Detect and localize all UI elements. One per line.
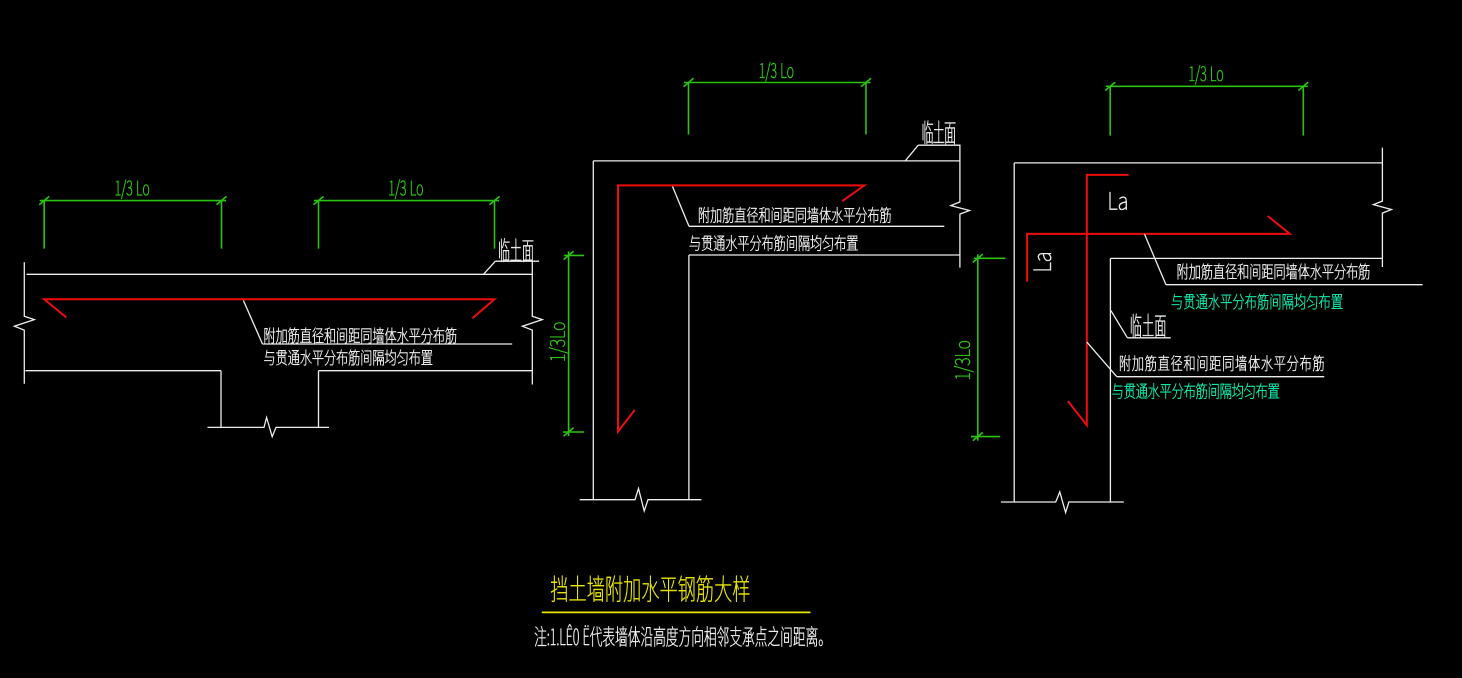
vertical dimension 1/3Lo (middle detail) (549, 251, 584, 436)
bottom cut line with break symbol (right detail) (1001, 492, 1124, 513)
wall top line (middle detail) (593, 160, 960, 162)
dimension 1/3Lo left-detail span B (314, 180, 500, 249)
vertical rebar with hooks (red) right detail (1068, 175, 1129, 425)
additional rebar (red) middle detail (618, 185, 864, 431)
label 临土面 (right detail) (1111, 311, 1171, 338)
wall inner face (right detail) (1109, 258, 1111, 501)
horizontal rebar with hooks (red) right detail (1027, 216, 1290, 282)
dimension 1/3Lo left-detail span A (39, 180, 226, 249)
bottom cut line with break symbol (middle detail) (580, 489, 702, 512)
label La rotated (1033, 253, 1051, 270)
stem bottom cut line with break symbol (208, 418, 330, 437)
wall inner face (middle detail) (688, 255, 690, 500)
lower note line1 (right detail) (1120, 355, 1324, 371)
support stem left face (220, 371, 222, 428)
left cut edge with break symbol (14, 262, 34, 384)
wall top line (left detail) (27, 273, 533, 275)
title underline (yellow) (542, 611, 811, 613)
label La horizontal (1110, 192, 1127, 210)
lower note line2 cyan (right detail) (1112, 383, 1279, 399)
dimension 1/3Lo middle-detail top (684, 62, 872, 134)
additional rebar (red) left detail (44, 299, 494, 318)
drawing title 挡土墙附加水平钢筋大样 (551, 576, 749, 602)
upper note line1 (right detail) (1178, 264, 1370, 280)
wall outer face (right detail) (1013, 163, 1015, 502)
slab soffit line (middle detail) (689, 254, 961, 256)
note line1 (left detail) (265, 328, 457, 344)
slab soffit line (right detail) (1110, 257, 1382, 259)
label 临土面 (left detail) (484, 238, 540, 274)
leader to rebar note (left detail) (243, 301, 512, 345)
dimension 1/3Lo right-detail top (1105, 65, 1308, 135)
note line2 (left detail) (264, 350, 432, 366)
note 1 text (535, 624, 823, 646)
note line1 (middle detail) (699, 207, 891, 223)
vertical dimension 1/3Lo (right detail) (954, 254, 1005, 441)
note line2 (middle detail) (690, 235, 858, 251)
wall bottom line right of stem (319, 370, 533, 372)
right cut edge with break symbol (right detail) (1373, 148, 1391, 267)
support stem right face (318, 371, 320, 428)
label 临土面 (middle detail) (905, 120, 960, 160)
wall top line (right detail) (1014, 162, 1382, 164)
right cut edge with break symbol (middle detail) (951, 145, 970, 267)
leader to lower rebar note (right detail) (1087, 342, 1325, 377)
wall bottom line left of stem (25, 370, 221, 372)
leader to rebar note (middle detail) (673, 187, 945, 227)
right cut edge with break symbol (left detail) (522, 262, 542, 385)
wall outer face (middle detail) (592, 161, 594, 500)
upper note line2 cyan (right detail) (1172, 294, 1342, 310)
leader to upper rebar note (right detail) (1144, 234, 1422, 285)
